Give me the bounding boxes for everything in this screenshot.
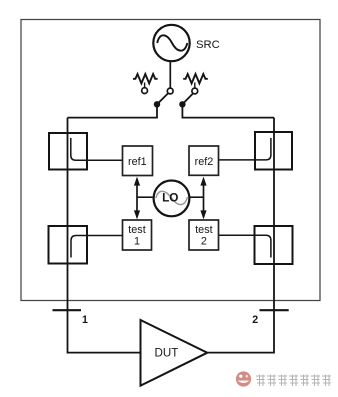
wire switch S2 to port2 main line [182,104,274,117]
coupler 4 (bottom-right) box [255,226,293,264]
instrument enclosure box [21,20,320,301]
wire LO to left arrow [137,196,153,198]
coupler 2 coupled line + wire to ref2 [219,138,271,160]
wire LO to right arrow [189,196,204,198]
svg-text:test: test [128,224,145,236]
switch S2 arm (port2 to load2) [182,94,192,105]
svg-text:SRC: SRC [196,39,220,51]
LO source circle [154,181,190,217]
svg-text:2: 2 [252,314,258,326]
svg-text:test: test [195,224,212,236]
svg-text:ref1: ref1 [128,156,147,168]
svg-text:2: 2 [201,236,207,248]
port 2 connector tick [260,309,289,311]
coupler 3 (bottom-left) box [49,226,88,264]
port 1 connector tick [53,309,82,311]
svg-text:LO: LO [162,191,178,205]
node: SRC throw contact [167,88,173,94]
receiver test1 box [123,220,152,250]
coupler 1 coupled line + wire to ref1 [71,138,123,160]
arrow ref1-test1 (double headed) [134,177,140,220]
wire SRC to switch throw [169,60,171,88]
coupler 1 (top-left) box [49,133,87,170]
switch S1 arm (port1 to SRC) [157,93,168,104]
wire switch S1 to port1 main line [68,104,158,117]
resistor load 1 (left termination) [133,74,158,88]
watermark logo icon [236,371,251,386]
arrow ref2-test2 (double headed) [200,177,206,220]
switch S1 common node [154,101,160,107]
receiver test2 box [189,220,219,250]
svg-text:1: 1 [134,236,140,248]
coupler 4 coupled line + wire to test2 [219,235,271,257]
wire port1 main line (vertical) and DUT input [68,118,141,353]
switch S2 common node [179,101,185,107]
resistor load 2 (right termination) [183,74,208,88]
coupler 3 coupled line + wire to test1 [71,236,123,258]
coupler 2 (top-right) box [255,132,292,170]
amplifier DUT triangle [141,320,208,386]
svg-text:1: 1 [82,314,88,326]
node: load 2 throw contact [192,88,198,94]
wire port2 main line (vertical) and DUT output [208,118,275,353]
svg-text:ref2: ref2 [195,156,214,168]
receiver ref1 box [123,146,153,176]
receiver ref2 box [189,146,219,175]
svg-text:DUT: DUT [154,347,178,360]
watermark text (CJK glyph substitutes) [256,375,331,387]
source SRC circle with sine [153,25,189,61]
node: load 1 throw contact [142,88,148,94]
